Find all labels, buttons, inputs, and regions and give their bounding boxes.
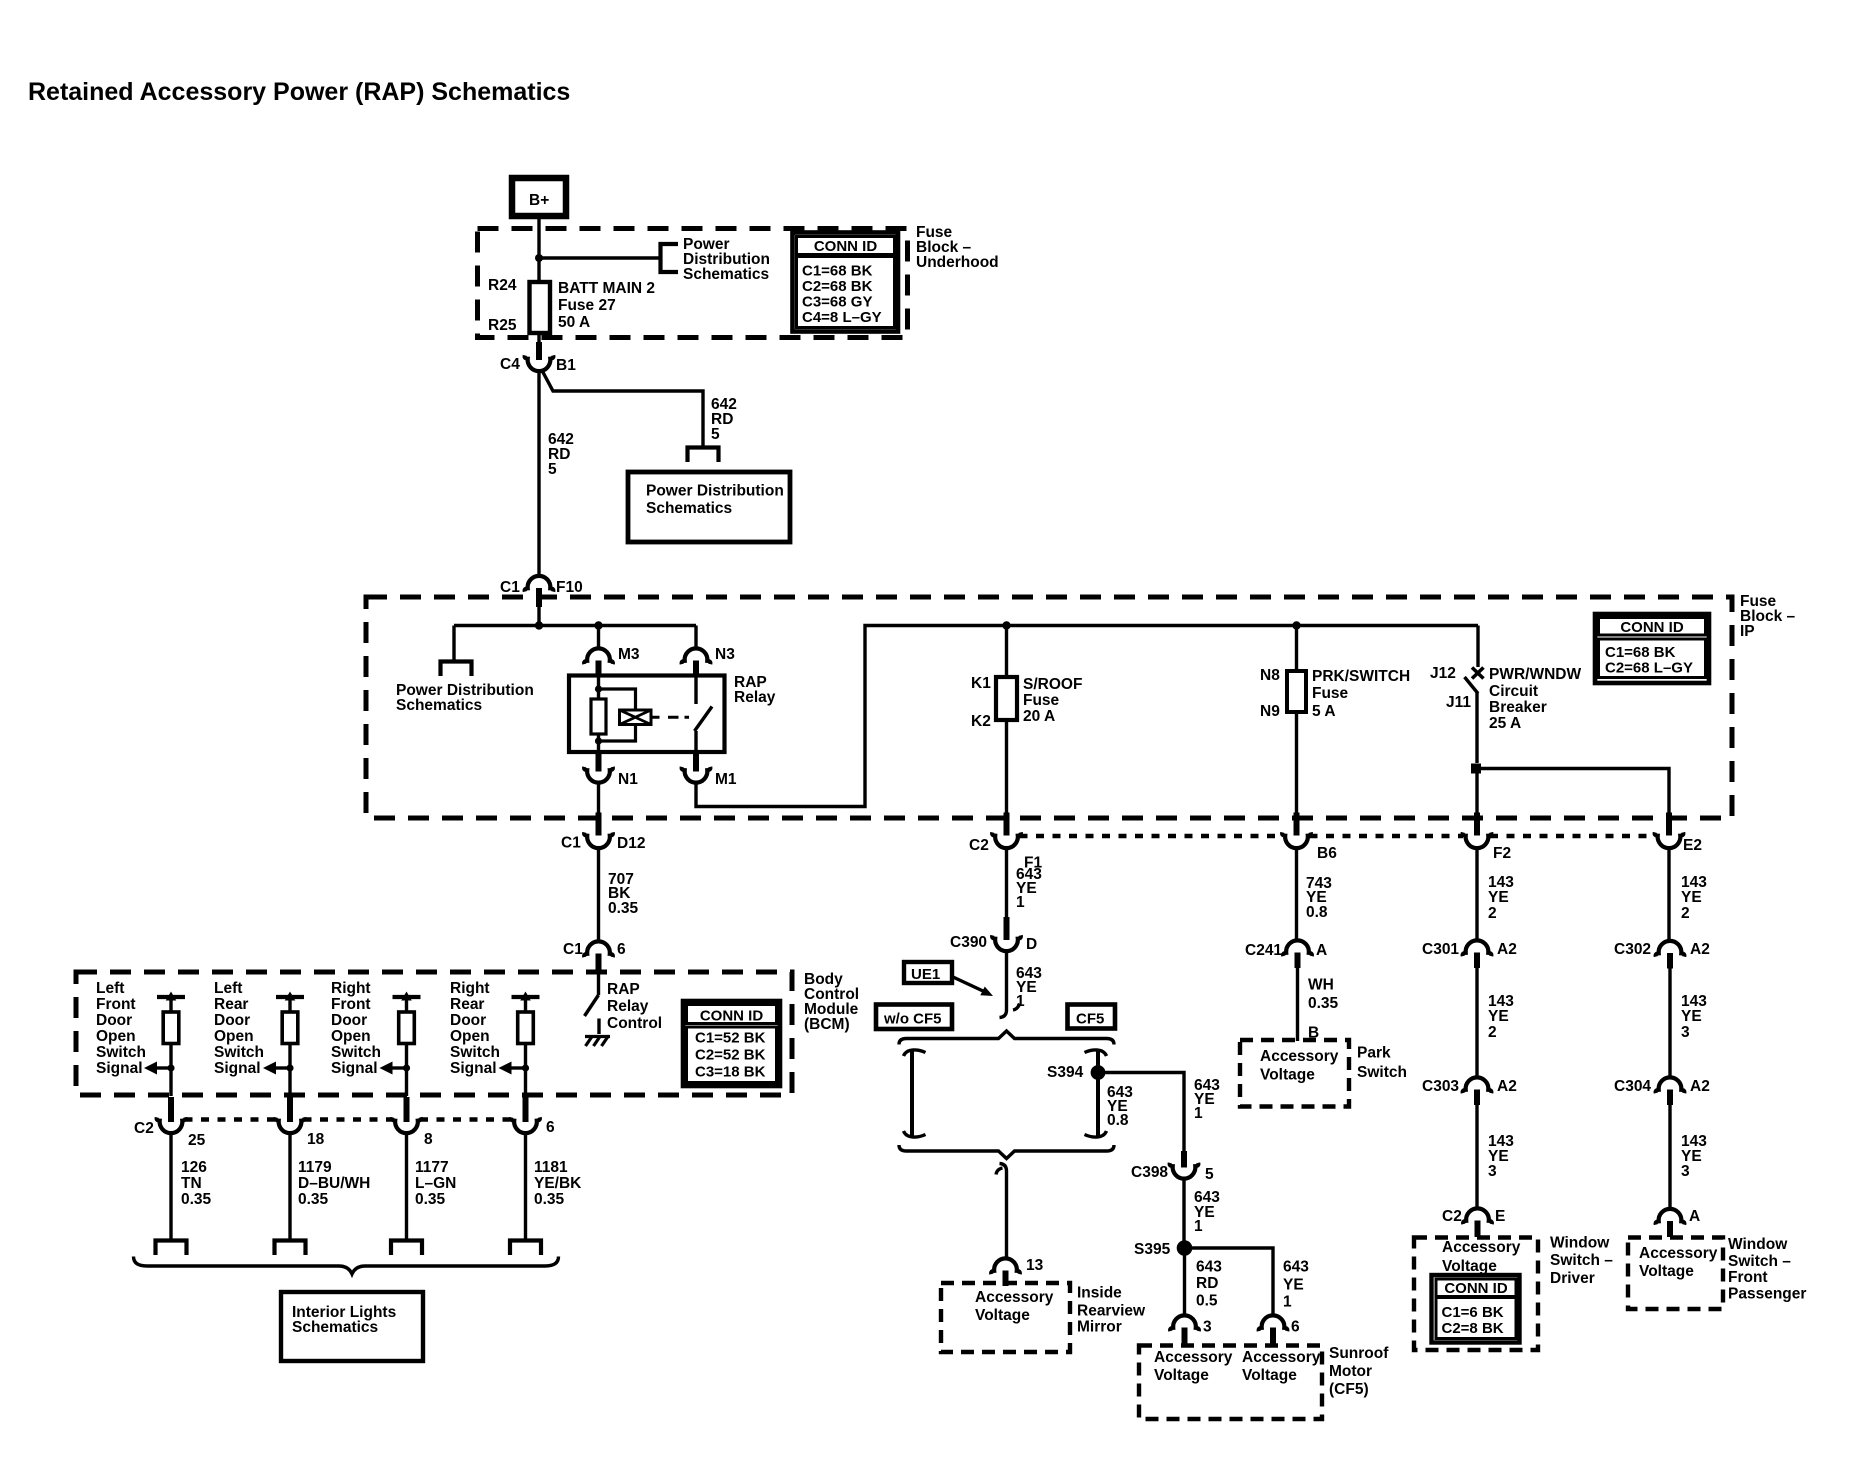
connector C304|A2 [1614,1077,1710,1105]
svg-text:C2=68 BK: C2=68 BK [802,278,873,295]
svg-text:13: 13 [1026,1257,1044,1274]
CONN ID table window switch driver [1432,1275,1520,1343]
svg-text:Accessory: Accessory [1639,1245,1718,1262]
svg-text:Voltage: Voltage [1442,1258,1497,1275]
box park switch accessory voltage [1240,1040,1349,1107]
connector E2 [1655,813,1702,855]
wire breaker to E2 [1477,769,1669,815]
svg-text:6: 6 [617,941,626,958]
svg-text:Relay: Relay [607,998,649,1015]
node coil bottom junction [595,737,602,744]
svg-text:CONN ID: CONN ID [814,238,878,255]
svg-text:CONN ID: CONN ID [1620,619,1684,636]
svg-text:Passenger: Passenger [1728,1286,1806,1303]
label Fuse Block Underhood [916,224,999,271]
svg-text:Rear: Rear [450,996,484,1013]
svg-text:A: A [1689,1208,1700,1225]
wire option branch w/o CF5 [904,1050,926,1137]
connector C398|5 [1131,1151,1214,1183]
connector C301|A2 [1422,940,1517,968]
node junction J11 output [1471,764,1481,774]
svg-text:L–GN: L–GN [415,1175,456,1192]
svg-text:C3=18 BK: C3=18 BK [695,1064,766,1081]
brace option merge bottom [899,1145,1114,1159]
wire branch 642 RD to power distribution [542,370,704,448]
svg-text:C1: C1 [500,579,520,596]
connector C1|D12 [561,813,645,853]
svg-text:C1: C1 [563,941,583,958]
svg-text:Fuse 27: Fuse 27 [558,297,616,314]
connector C303|A2 [1422,1077,1517,1105]
svg-text:A2: A2 [1690,941,1710,958]
connector pin 6 [511,1097,555,1136]
svg-text:D–BU/WH: D–BU/WH [298,1175,370,1192]
svg-text:S/ROOF: S/ROOF [1023,676,1082,693]
relay U: RAP Relay box [569,676,725,753]
wire E2 to C302 [1667,846,1670,942]
resistor relay coil suppression [591,699,606,734]
svg-text:Accessory: Accessory [1242,1349,1321,1366]
svg-text:N1: N1 [618,771,638,788]
svg-text:C1: C1 [561,835,581,852]
svg-text:w/o CF5: w/o CF5 [883,1011,942,1028]
svg-text:C4=8 L–GY: C4=8 L–GY [802,309,882,326]
wire label 743 YE 0.8 [1306,875,1332,921]
wire IP feed rail left [454,624,696,627]
svg-text:0.35: 0.35 [298,1191,329,1208]
connector C1|6 (BCM) [563,941,626,973]
label Window Switch Driver [1550,1235,1613,1288]
svg-text:C2: C2 [134,1120,154,1137]
svg-text:Door: Door [331,1012,367,1029]
svg-text:Schematics: Schematics [646,500,732,517]
wire S/ROOF fuse column [1005,626,1008,815]
node splice S395 [1134,1240,1192,1258]
wire F1 to C390 [1005,847,1008,929]
svg-text:5 A: 5 A [1312,703,1336,720]
svg-text:Switch –: Switch – [1550,1252,1613,1269]
svg-text:A2: A2 [1690,1078,1710,1095]
svg-text:Schematics: Schematics [396,697,482,714]
svg-text:D: D [1026,936,1037,953]
svg-text:CF5: CF5 [1076,1011,1104,1028]
fuse PRK/SWITCH (N8/N9) [1260,667,1410,720]
svg-text:M3: M3 [618,646,640,663]
svg-text:C1=6 BK: C1=6 BK [1442,1304,1504,1321]
svg-text:Fuse: Fuse [1023,692,1060,709]
relay switch blade [695,707,713,732]
wire label 643 RD 0.5 [1196,1259,1222,1310]
connector C390|D [950,917,1037,953]
node junction on B+ feed [535,254,543,262]
svg-text:C304: C304 [1614,1078,1651,1095]
wire 1177 L-GN [405,1132,408,1242]
connector N1 [584,752,638,788]
svg-text:0.5: 0.5 [1196,1293,1218,1310]
wire S394 to C398 [1098,1073,1184,1155]
svg-text:25 A: 25 A [1489,715,1521,732]
off-page connector interior lights 3 [391,1241,422,1256]
svg-text:1: 1 [1016,894,1025,911]
wire label 643 YE 1 (to C398) [1194,1077,1220,1122]
wire merge down to mirror [1000,1164,1007,1260]
svg-text:18: 18 [307,1131,325,1148]
svg-text:Signal: Signal [331,1060,378,1077]
wire fuse to connector C4 [537,333,540,350]
svg-text:Open: Open [214,1028,254,1045]
node UE1 callout box [904,962,993,996]
wire B6 to C241 [1295,846,1298,942]
svg-text:6: 6 [1291,1319,1300,1336]
svg-text:1: 1 [1194,1105,1203,1122]
svg-text:B1: B1 [556,357,576,374]
svg-text:Breaker: Breaker [1489,699,1547,716]
svg-text:Rear: Rear [214,996,248,1013]
wire breaker to F2 [1475,769,1478,815]
box Interior Lights Schematics [281,1292,423,1361]
circuit breaker PWR/WNDW (J12/J11) [1430,626,1581,764]
switch: right front door open switch signal circuit [331,980,421,1096]
svg-text:Signal: Signal [214,1060,261,1077]
svg-text:0.8: 0.8 [1107,1112,1129,1129]
svg-text:Voltage: Voltage [1154,1367,1209,1384]
svg-text:Front: Front [96,996,136,1013]
wire PRK/SWITCH fuse column [1295,626,1298,815]
svg-text:YE: YE [1488,889,1509,906]
svg-text:BATT MAIN 2: BATT MAIN 2 [558,280,655,297]
svg-text:3: 3 [1681,1024,1690,1041]
svg-text:2: 2 [1681,905,1690,922]
svg-text:25: 25 [188,1132,206,1149]
svg-text:Left: Left [96,980,124,997]
wire D12 to BCM [597,846,600,943]
svg-text:C1=52 BK: C1=52 BK [695,1030,766,1047]
svg-text:1179: 1179 [298,1159,332,1176]
fuse block IP dashed box [366,597,1732,818]
svg-text:K1: K1 [971,675,991,692]
node junction at 539 [535,621,543,629]
svg-text:F2: F2 [1493,845,1511,862]
off-page bracket Power Distribution (underhood) [661,244,679,272]
off-page connector to power distribution box [688,448,719,463]
svg-text:Power Distribution: Power Distribution [646,483,784,500]
svg-text:0.35: 0.35 [415,1191,446,1208]
label Body Control Module (BCM) [804,971,859,1033]
wire label 643 YE 1 (below C390) [1016,965,1042,1010]
svg-text:C3=68 GY: C3=68 GY [802,294,872,311]
svg-text:C2: C2 [1442,1208,1462,1225]
svg-text:Signal: Signal [450,1060,497,1077]
svg-text:Rearview: Rearview [1077,1303,1146,1320]
svg-text:3: 3 [1681,1163,1690,1180]
svg-text:C1=68 BK: C1=68 BK [802,263,873,280]
dotted connector row line (IP bottom) [1020,834,1656,839]
connector N3 [682,646,736,677]
svg-text:Switch: Switch [1357,1064,1407,1081]
node junction at M3 drop [594,621,602,629]
svg-text:N9: N9 [1260,703,1280,720]
svg-text:Schematics: Schematics [683,266,769,283]
svg-text:D12: D12 [617,835,645,852]
svg-text:Front: Front [1728,1269,1768,1286]
fuse block underhood dashed box [478,229,908,338]
svg-text:Voltage: Voltage [1639,1263,1694,1280]
svg-text:Switch: Switch [214,1044,264,1061]
wire 1179 D-BU/WH [288,1132,291,1242]
wire S395 to sunroof pin 3 [1183,1248,1186,1316]
svg-text:20 A: 20 A [1023,708,1055,725]
svg-text:Window: Window [1550,1235,1610,1252]
wire label 143 YE 3 (passenger) [1681,1133,1707,1180]
switch: right rear door open switch signal circuit [450,980,540,1096]
svg-text:A2: A2 [1497,1078,1517,1095]
svg-text:8: 8 [424,1131,433,1148]
off-page connector power distribution (IP) [441,662,472,677]
connector 3 (sunroof motor) [1170,1315,1212,1346]
svg-text:RD: RD [1196,1275,1218,1292]
node junction S/ROOF drop [1002,621,1010,629]
svg-text:Accessory: Accessory [1260,1048,1339,1065]
svg-text:J11: J11 [1446,694,1471,711]
svg-text:Fuse: Fuse [1312,685,1349,702]
connector C1|F10 [500,576,583,607]
node CF5 option label [1068,1005,1116,1029]
svg-text:B+: B+ [529,192,549,209]
svg-text:S394: S394 [1047,1064,1084,1081]
svg-text:Control: Control [607,1015,662,1032]
wire label 143 YE 3 (driver) [1488,1133,1514,1180]
svg-text:0.8: 0.8 [1306,904,1328,921]
svg-text:J12: J12 [1430,665,1456,682]
wire 642 RD to C1/F10 [537,370,540,577]
svg-text:PWR/WNDW: PWR/WNDW [1489,666,1581,683]
svg-text:YE: YE [1681,1008,1702,1025]
svg-text:YE/BK: YE/BK [534,1175,582,1192]
wire 1181 YE/BK [524,1132,527,1242]
svg-text:C398: C398 [1131,1164,1168,1181]
svg-text:5: 5 [1205,1166,1214,1183]
svg-text:S395: S395 [1134,1241,1171,1258]
wire label 143 YE 2 (F2) [1488,874,1514,922]
wire C301 to C303 [1475,968,1478,1079]
svg-text:Open: Open [331,1028,371,1045]
svg-text:C2=68 L–GY: C2=68 L–GY [1605,660,1693,677]
wire coil to N1 [597,741,600,752]
svg-text:2: 2 [1488,905,1497,922]
label Sunroof Motor (CF5) [1329,1345,1389,1398]
label Inside Rearview Mirror [1077,1285,1146,1336]
wire C303 to C2|E [1475,1105,1478,1210]
wire F2 to C301 [1475,846,1478,942]
wire label 143 YE 2 (E2) [1681,874,1707,922]
wire to M3 [597,626,600,650]
node junction PRK/SWITCH drop [1292,621,1300,629]
svg-text:C2=8 BK: C2=8 BK [1442,1320,1504,1337]
wire label 143 YE 3 (mid) [1681,993,1707,1041]
svg-text:1: 1 [1194,1218,1203,1235]
box Power Distribution Schematics [628,472,790,542]
wire label 642 RD 5 (main) [548,431,574,478]
svg-text:C302: C302 [1614,941,1651,958]
off-page connector interior lights 1 [156,1241,187,1256]
wire label 643 YE 1 (below C398) [1194,1189,1220,1235]
wire to M1 [694,731,697,752]
svg-text:F10: F10 [556,579,583,596]
connector C241|A [1245,940,1327,968]
svg-text:0.35: 0.35 [534,1191,565,1208]
svg-text:Window: Window [1728,1236,1788,1253]
svg-text:YE: YE [1681,889,1702,906]
wire label WH 0.35 [1308,977,1339,1013]
connector C2|E (window switch driver) [1442,1208,1505,1237]
wire option branch CF5 [1085,1050,1107,1137]
svg-text:Schematics: Schematics [292,1319,378,1336]
svg-text:C2: C2 [969,837,989,854]
svg-text:643: 643 [1283,1259,1309,1276]
svg-text:643: 643 [1196,1259,1222,1276]
wire label 707 BK 0.35 [608,871,639,917]
node splice S394 [1047,1064,1105,1081]
connector C302|A2 [1614,941,1710,969]
svg-text:0.35: 0.35 [181,1191,212,1208]
svg-text:N8: N8 [1260,667,1280,684]
svg-text:Left: Left [214,980,242,997]
wire drop to power distribution off-page [452,626,455,662]
svg-text:Signal: Signal [96,1060,143,1077]
svg-text:UE1: UE1 [911,966,940,983]
svg-text:R24: R24 [488,277,517,294]
svg-text:C2=52 BK: C2=52 BK [695,1047,766,1064]
svg-text:YE: YE [1283,1277,1304,1294]
body control module BCM dashed box [76,972,792,1095]
connector pin 8 [392,1097,433,1148]
svg-text:3: 3 [1203,1319,1212,1336]
svg-text:Right: Right [450,980,490,997]
wire N1 down to C1|D12 [597,781,600,815]
wire M1 to IP feed rail right [696,626,1478,807]
svg-text:A2: A2 [1497,941,1517,958]
svg-text:A: A [1316,942,1327,959]
box window switch driver [1414,1238,1538,1351]
dotted connector row line (BCM C2) [185,1117,512,1122]
connector 13 (inside rearview mirror) [991,1257,1043,1286]
wire 126 TN [169,1132,172,1242]
wire label 642 RD 5 (branch) [711,396,737,443]
svg-text:Motor: Motor [1329,1363,1372,1380]
wire S395 to sunroof pin 6 [1185,1248,1274,1316]
connector F2 [1463,813,1511,863]
svg-text:Voltage: Voltage [1242,1367,1297,1384]
box Inside Rearview Mirror [941,1283,1070,1352]
svg-text:Mirror: Mirror [1077,1319,1122,1336]
svg-text:C303: C303 [1422,1078,1459,1095]
brace grouping door signals [134,1257,559,1275]
svg-text:B6: B6 [1317,845,1337,862]
svg-text:0.35: 0.35 [608,900,639,917]
wire label 643 YE 1 (to pin 6) [1283,1259,1309,1311]
wire C302 to C304 [1668,969,1671,1079]
wire C390 down to option split [1000,950,1007,1018]
svg-text:M1: M1 [715,771,737,788]
svg-text:E: E [1495,1208,1505,1225]
wire label 143 YE 2 (mid) [1488,993,1514,1041]
svg-text:Retained Accessory Power (RAP): Retained Accessory Power (RAP) Schematic… [28,78,570,106]
svg-text:1177: 1177 [415,1159,449,1176]
svg-text:CONN ID: CONN ID [700,1008,764,1025]
svg-text:Door: Door [96,1012,132,1029]
svg-text:K2: K2 [971,713,991,730]
wire label 643 YE 0.8 [1107,1084,1133,1129]
wire C398 to S395 [1182,1177,1185,1248]
off-page connector interior lights 2 [275,1241,306,1256]
svg-text:Accessory: Accessory [1154,1349,1233,1366]
svg-text:2: 2 [1488,1024,1497,1041]
svg-text:Accessory: Accessory [1442,1239,1521,1256]
CONN ID table fuse block underhood [793,233,899,332]
RAP relay control driver switch [585,972,663,1034]
switch: left front door open switch signal circuit [96,980,185,1096]
brace option split top [899,1031,1114,1045]
svg-text:Relay: Relay [734,689,776,706]
wire C304 to A [1668,1105,1671,1210]
svg-text:1: 1 [1283,1294,1292,1311]
wire relay coil branch [597,677,600,741]
svg-text:YE: YE [1488,1008,1509,1025]
svg-text:Switch –: Switch – [1728,1253,1791,1270]
svg-text:6: 6 [546,1119,555,1136]
switch: left rear door open switch signal circuit [214,980,304,1096]
svg-text:C390: C390 [950,934,987,951]
wire to N3 [694,626,697,650]
connector C2|F1 [969,813,1042,872]
svg-text:Driver: Driver [1550,1270,1595,1287]
fuse BATT MAIN 2 (R24/R25) [488,277,655,334]
svg-text:Voltage: Voltage [1260,1067,1315,1084]
svg-text:Door: Door [214,1012,250,1029]
svg-text:R25: R25 [488,317,517,334]
connector pin 18 [276,1097,325,1148]
svg-text:E2: E2 [1683,837,1702,854]
svg-text:IP: IP [1740,623,1755,640]
svg-text:Accessory: Accessory [975,1289,1054,1306]
box window switch front passenger [1628,1238,1723,1310]
node coil top junction [595,685,602,692]
svg-text:RAP: RAP [607,981,640,998]
fuse S/ROOF (K1/K2) [971,675,1082,730]
connector 6 (sunroof motor) [1259,1315,1300,1346]
CONN ID table BCM [683,1001,780,1086]
svg-text:Open: Open [450,1028,490,1045]
wire to power distribution tap [539,256,660,259]
svg-text:3: 3 [1488,1163,1497,1180]
CONN ID table fuse block IP [1595,614,1709,683]
connector B6 [1282,813,1337,863]
connector C4|B1 [500,342,576,374]
svg-text:C241: C241 [1245,942,1282,959]
label Park Switch [1357,1045,1407,1082]
svg-text:CONN ID: CONN ID [1444,1280,1508,1297]
svg-text:Circuit: Circuit [1489,683,1538,700]
off-page connector interior lights 4 [510,1241,541,1256]
svg-text:Switch: Switch [450,1044,500,1061]
svg-text:Underhood: Underhood [916,254,999,271]
wire B+ to fuse [537,216,540,282]
svg-text:1181: 1181 [534,1159,568,1176]
box Sunroof Motor [1139,1346,1322,1420]
wire C241 to park switch [1296,968,1299,1041]
svg-text:Front: Front [331,996,371,1013]
wire F10 into fuse block IP [537,605,540,626]
